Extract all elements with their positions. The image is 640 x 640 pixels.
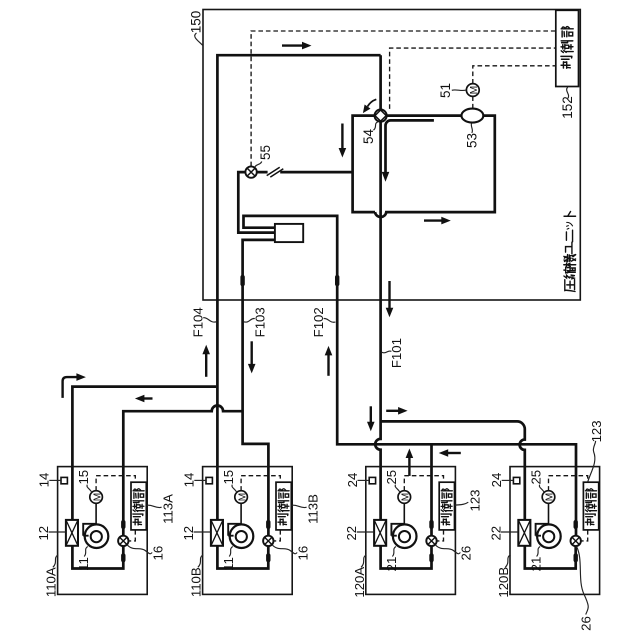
svg-text:21: 21 (384, 557, 399, 572)
arrowhead internal flow down (382, 172, 390, 182)
flow arrow right on top pipe (282, 42, 312, 50)
heat exchanger 12 (110A) (66, 520, 78, 546)
service joint on pipe F102 (335, 275, 339, 286)
svg-text:113A: 113A (161, 494, 176, 524)
svg-text:12: 12 (181, 526, 196, 541)
svg-text:123: 123 (589, 420, 604, 442)
svg-text:150: 150 (189, 11, 204, 34)
wire: pipe from valve 55 to receiver middle port (238, 172, 275, 233)
wire: pipe F101 from valve 54 down through vessel to unit 120A, jump at F102 line (375, 122, 380, 520)
compressor unit outer box 150 (203, 10, 580, 301)
leader F104 (203, 318, 216, 322)
sensor 14 (110A) (61, 477, 67, 483)
receiver box (275, 224, 303, 242)
svg-text:26: 26 (579, 616, 594, 631)
leader 53 (471, 123, 472, 133)
control unit text 制御部 (561, 27, 573, 69)
svg-text:26: 26 (459, 546, 474, 561)
sensor 24 (120A) (369, 477, 375, 483)
svg-text:25: 25 (384, 470, 399, 485)
sensor 14 (110B) (206, 477, 212, 483)
control box of 120A (439, 482, 454, 530)
wire: unit 110B bottom loop (217, 546, 268, 569)
control box of 110B (276, 482, 291, 530)
service joints on valve pipe (110A) (121, 520, 125, 529)
service joint on pipe F103 (240, 275, 244, 286)
svg-text:22: 22 (344, 526, 359, 541)
svg-text:M: M (401, 493, 412, 502)
wire: pipe F102 from receiver upper port down and right to units 120A/120B (244, 216, 577, 537)
fan 11 (110A) (83, 524, 108, 548)
dashed control line control box to valve (120A) (437, 530, 444, 541)
compressor 53 (oval) (462, 109, 484, 123)
wire: unit 120A bottom loop (381, 546, 432, 569)
dashed control line to motor 51 (473, 66, 556, 84)
wire: branch pipe to unit 110A heat exchanger (72, 387, 216, 520)
dashed control line control box to valve (110A) (129, 530, 136, 541)
service joints on valve pipe (110B) (266, 520, 270, 529)
flow arrow left on branch line (135, 395, 153, 403)
svg-text:15: 15 (76, 470, 91, 485)
svg-text:110A: 110A (44, 567, 59, 597)
control box of 110A (131, 482, 146, 530)
flow arrow down pipe F101 (386, 281, 394, 317)
svg-text:16: 16 (295, 546, 310, 561)
dashed control line motor to control box (110A) (96, 476, 135, 491)
control unit box 152 (556, 10, 579, 86)
expansion valve 26 (120A) (426, 536, 436, 546)
wire: liquid branch from F103 to unit 110A valve, jump over F104 (123, 405, 242, 536)
svg-text:120A: 120A (352, 567, 367, 598)
motor 51 (466, 84, 480, 97)
motor 25 (120A) (398, 491, 412, 525)
fan 11 (110B) (228, 524, 253, 548)
leader 54 (373, 122, 377, 130)
flow arrow down left of F101 branch (367, 406, 375, 431)
service joints on valve pipe (120A) (429, 520, 433, 529)
svg-text:22: 22 (488, 526, 503, 541)
motor 25 (120B) (542, 491, 556, 525)
wire: unit 110A bottom loop (72, 546, 123, 569)
svg-text:F104: F104 (190, 307, 205, 337)
dashed control line motor to control box (120A) (404, 476, 443, 491)
svg-text:110B: 110B (189, 567, 204, 597)
svg-text:11: 11 (76, 557, 91, 571)
leader 55 (255, 162, 262, 167)
internal flow line inside vessel (386, 120, 434, 172)
four-way valve 54 (375, 110, 387, 122)
pipe break symbol (267, 167, 284, 177)
indoor unit 120A box (366, 467, 456, 595)
wire: unit 120B bottom loop (525, 546, 576, 569)
dashed control line control box to valve (120B) (581, 530, 588, 541)
wire: pipe from top loop into valve 54 (379, 55, 382, 109)
svg-text:120B: 120B (496, 567, 511, 598)
fan 21 (120A) (391, 524, 416, 548)
dashed link motor 51 to compressor 53 (472, 96, 474, 108)
motor 15 (110B) (235, 491, 249, 525)
compressor unit name 圧縮機ユニット (564, 212, 576, 292)
svg-text:F103: F103 (253, 307, 268, 337)
svg-text:M: M (237, 493, 248, 502)
fan 21 (120B) (536, 524, 561, 548)
wire: top discharge pipe and pipe F104 down to unit 110B (217, 55, 380, 520)
dashed control line motor to control box (110B) (241, 476, 280, 491)
svg-text:12: 12 (36, 526, 51, 541)
expansion valve 55 (245, 166, 256, 177)
control box of 120B (583, 482, 598, 530)
expansion valve 26 (120B) (571, 536, 581, 546)
leader F101 (382, 351, 391, 353)
svg-text:M: M (92, 493, 103, 502)
heat exchanger 12 (110B) (211, 520, 223, 546)
svg-text:152: 152 (560, 96, 575, 119)
svg-text:53: 53 (464, 133, 479, 148)
dashed control line control box to valve (110B) (274, 530, 281, 541)
curved switching arrow at valve 54 (363, 99, 376, 113)
svg-text:11: 11 (221, 557, 236, 571)
svg-text:15: 15 (221, 470, 236, 485)
motor 15 (110A) (90, 491, 104, 525)
flow arrow up pipe F104 (202, 345, 210, 377)
flow arrow up into unit 120A (406, 449, 414, 476)
svg-text:M: M (545, 493, 556, 502)
sensor 24 (120B) (513, 477, 519, 483)
wire: pipe F103 from receiver lower port down to unit 110B valve (243, 240, 275, 537)
svg-text:25: 25 (528, 470, 543, 485)
wire: branch down to unit 120A valve (430, 444, 433, 536)
svg-text:F102: F102 (311, 307, 326, 337)
leader 51 (452, 89, 466, 92)
dashed control line to valve 55 (251, 31, 556, 166)
indoor unit 110B box (203, 467, 293, 595)
flow arrow left on F102 line (439, 449, 461, 457)
svg-text:113B: 113B (306, 494, 321, 524)
wire: F101 branch to unit 120B heat exchanger, jump at F102 line (381, 421, 525, 520)
flow arrow down left of vessel (339, 124, 347, 158)
svg-text:123: 123 (467, 489, 482, 511)
leader 150 (195, 33, 203, 46)
heat exchanger vessel (compressor loop) (353, 116, 495, 217)
wire: valve 55 right pipe with break (256, 171, 352, 174)
flow arrow up pipe F102 (325, 346, 333, 376)
heat exchanger 22 (120B) (518, 520, 530, 546)
svg-text:55: 55 (258, 145, 273, 160)
heat exchanger 22 (120A) (374, 520, 386, 546)
indoor unit 120B box (510, 467, 600, 595)
leader F102 (324, 318, 336, 322)
dashed control line motor to control box (120B) (549, 476, 588, 491)
flow arrow right on F101 branch (386, 407, 407, 415)
svg-text:M: M (469, 86, 480, 95)
bent flow arrow at top left branch (63, 373, 86, 398)
svg-text:54: 54 (361, 129, 376, 145)
svg-text:51: 51 (438, 83, 453, 98)
indoor unit 110A box (58, 467, 148, 595)
svg-text:F101: F101 (389, 338, 404, 368)
svg-text:16: 16 (150, 546, 165, 561)
expansion valve 16 (110B) (263, 536, 273, 546)
svg-text:21: 21 (528, 557, 543, 572)
flow arrow right below vessel (424, 217, 451, 225)
dashed control line to valve 54 (390, 48, 556, 109)
leader 152 (567, 87, 569, 99)
service joints on valve pipe (120B) (574, 520, 578, 529)
flow arrow down pipe F103 (248, 341, 256, 373)
leader F103 (244, 318, 255, 322)
expansion valve 16 (110A) (118, 536, 128, 546)
